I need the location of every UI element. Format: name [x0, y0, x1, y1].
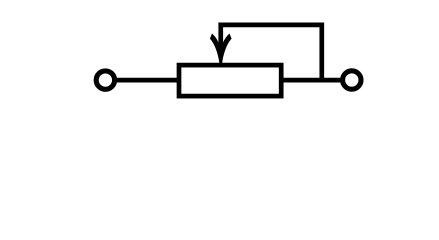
wiper lead (stem up, over the top, down to right wire) [221, 25, 322, 83]
resistor R1 body [179, 65, 281, 96]
wiper arrow head [210, 34, 232, 64]
wire left terminal to resistor [115, 78, 181, 83]
wire resistor to right terminal [279, 78, 345, 83]
terminal T2 (right open circle) [343, 71, 361, 89]
terminal T1 (left open circle) [96, 71, 114, 89]
